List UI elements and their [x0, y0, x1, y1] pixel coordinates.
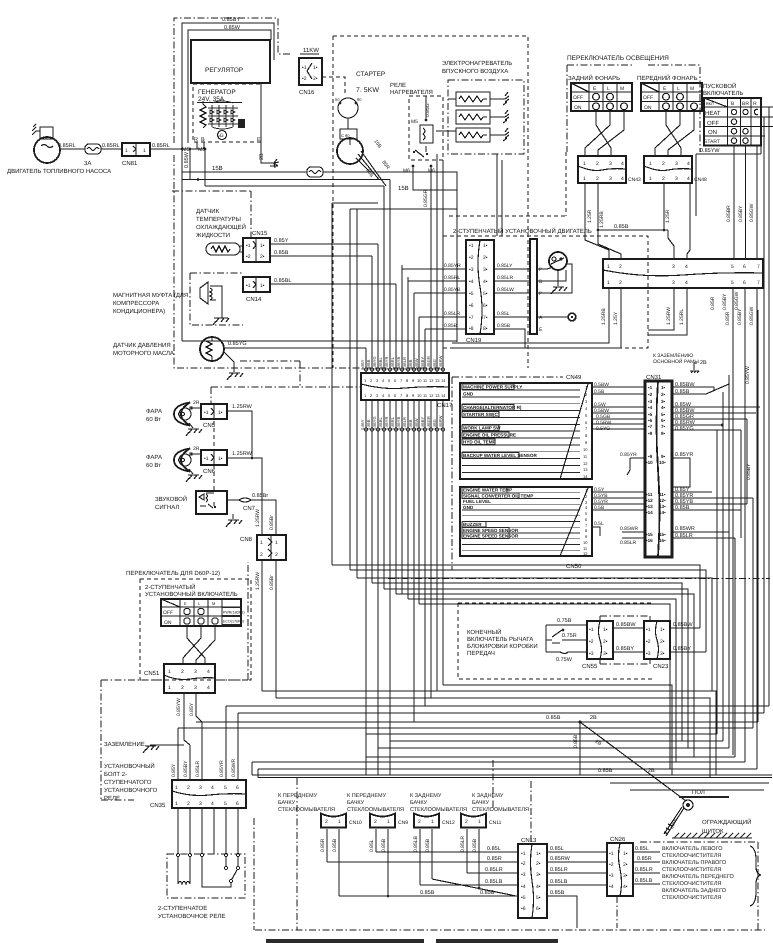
wiper switch text block [662, 846, 735, 901]
svg-text:BACKUP WATER LEVEL SENSOR: BACKUP WATER LEVEL SENSOR [463, 453, 537, 458]
rear light X wires [585, 111, 624, 156]
bus left corner verticals [252, 762, 258, 778]
svg-text:2: 2 [275, 552, 278, 558]
wire 0.85YG oil sensor [224, 347, 366, 349]
svg-text:УСТАНОВОЧНЫЙ: УСТАНОВОЧНЫЙ [104, 762, 155, 770]
bus long wire 2 [258, 777, 772, 779]
svg-text:ПЕРЕДНИЙ ФОНАРЬ: ПЕРЕДНИЙ ФОНАРЬ [637, 74, 698, 82]
svg-text:0.85LR: 0.85LR [675, 533, 693, 539]
svg-text:90: 90 [357, 97, 362, 102]
bus wire B1 [262, 691, 716, 775]
svg-text:R: R [753, 101, 757, 107]
wire 1.25RW CN5 [227, 411, 252, 458]
svg-text:2•: 2• [661, 392, 666, 397]
svg-text:0.5B: 0.5B [594, 505, 605, 511]
bus right short C8 C9 [610, 783, 769, 790]
svg-text:•1: •1 [204, 410, 209, 416]
svg-text:11•: 11• [659, 492, 666, 497]
svg-text:0.85YG: 0.85YG [675, 426, 694, 432]
svg-text:МАГНИТНАЯ МУФТА (ДЛЯ: МАГНИТНАЯ МУФТА (ДЛЯ [113, 292, 188, 299]
svg-text:0.85L: 0.85L [635, 846, 649, 852]
svg-text:0.85Y: 0.85Y [274, 238, 289, 244]
svg-text:CN35: CN35 [150, 802, 166, 809]
dash-dot boundary cab [452, 377, 563, 570]
svg-text:8•: 8• [661, 431, 666, 436]
svg-text:0.85L: 0.85L [497, 311, 510, 317]
svg-text:2-СТУПЕНЧАТОЕ: 2-СТУПЕНЧАТОЕ [158, 905, 207, 912]
CN17 upper pin labels [360, 355, 443, 370]
svg-text:0.85B: 0.85B [420, 890, 435, 896]
svg-text:0.85GR: 0.85GR [426, 416, 431, 430]
svg-text:ПУСКОВОЙ: ПУСКОВОЙ [703, 82, 736, 90]
svg-text:•7: •7 [648, 424, 653, 429]
svg-text:0.85W: 0.85W [184, 151, 190, 168]
svg-text:ТЕМПЕРАТУРЫ: ТЕМПЕРАТУРЫ [196, 216, 241, 223]
svg-text:1.25R: 1.25R [665, 209, 671, 223]
svg-text:0.75W: 0.75W [556, 657, 573, 663]
svg-text:ВКЛЮЧАТЕЛЬ ПЕРЕДНЕГО: ВКЛЮЧАТЕЛЬ ПЕРЕДНЕГО [662, 874, 735, 880]
terminal A circle [537, 316, 568, 318]
svg-text:ЗАДНИЙ ФОНАРЬ: ЗАДНИЙ ФОНАРЬ [568, 74, 620, 82]
svg-text:•6: •6 [521, 906, 526, 912]
svg-text:1: 1 [583, 176, 586, 182]
svg-text:1: 1 [431, 819, 434, 825]
svg-text:CN6: CN6 [203, 468, 216, 475]
svg-text:3•: 3• [603, 651, 608, 657]
svg-text:1•: 1• [623, 851, 628, 857]
svg-text:1: 1 [338, 819, 341, 825]
svg-text:0.85RL: 0.85RL [390, 356, 395, 370]
svg-text:БАЧКУ: БАЧКУ [278, 800, 296, 806]
svg-text:1•: 1• [603, 627, 608, 633]
svg-text:ЗАЗЕМЛЕНИЕ: ЗАЗЕМЛЕНИЕ [104, 741, 145, 748]
svg-text:0.85R: 0.85R [725, 311, 731, 325]
svg-text:ENGINE WATER TEMP: ENGINE WATER TEMP [463, 488, 512, 493]
svg-text:1: 1 [175, 785, 178, 791]
wire 1.25RW CN6 [227, 458, 262, 535]
svg-text:3: 3 [672, 280, 675, 286]
svg-text:5: 5 [224, 801, 227, 807]
svg-text:13•: 13• [659, 504, 666, 509]
svg-text:0.5BW: 0.5BW [594, 382, 609, 388]
svg-text:2: 2 [662, 161, 665, 167]
svg-text:1•: 1• [218, 456, 223, 462]
svg-text:2: 2 [619, 264, 622, 270]
relay contact [415, 146, 426, 157]
wires below CN8 [262, 560, 276, 698]
wires below long connector [452, 288, 757, 385]
wires washers to CN13 [376, 851, 518, 853]
bus wire B4 [238, 712, 764, 714]
svg-text:0.85B: 0.85B [366, 359, 371, 370]
wire relay 15B down [413, 166, 457, 190]
svg-text:2: 2 [596, 161, 599, 167]
svg-text:M: M [212, 601, 215, 606]
generator winding resistor [200, 101, 206, 128]
svg-text:FUEL LEVEL: FUEL LEVEL [463, 499, 491, 504]
svg-text:OFF: OFF [643, 95, 653, 101]
headlamp E1 [174, 403, 201, 426]
CN31 right wires pins11-14 [672, 492, 753, 510]
svg-text:60 Вт: 60 Вт [146, 462, 161, 469]
bus wire A8 [419, 604, 670, 769]
right vertical bundle [717, 288, 757, 769]
svg-text:9•: 9• [661, 454, 666, 459]
svg-text:•1: •1 [648, 385, 653, 390]
svg-text:BR: BR [742, 101, 749, 107]
svg-text:•2: •2 [246, 254, 251, 260]
brace [750, 846, 761, 906]
wire fuse to CN81 [101, 148, 122, 150]
svg-text:0.85R: 0.85R [637, 856, 652, 862]
svg-text:0.75B: 0.75B [557, 618, 572, 624]
svg-text:0.85RL: 0.85RL [152, 143, 170, 149]
svg-text:К ПЕРЕДНЕМУ: К ПЕРЕДНЕМУ [278, 793, 318, 799]
svg-text:2: 2 [325, 819, 328, 825]
svg-text:50: 50 [335, 97, 340, 102]
start switch table [704, 98, 773, 146]
svg-text:4: 4 [621, 176, 624, 182]
svg-text:ПЕРЕКЛЮЧАТЕЛЬ ОСВЕЩЕНИЯ: ПЕРЕКЛЮЧАТЕЛЬ ОСВЕЩЕНИЯ [567, 55, 669, 62]
svg-text:14: 14 [583, 474, 588, 479]
bus wire C5 [252, 761, 745, 763]
svg-text:1•: 1• [536, 851, 541, 857]
svg-text:CN51: CN51 [144, 670, 160, 677]
svg-text:ВКЛЮЧАТЕЛЬ РЫЧАГА: ВКЛЮЧАТЕЛЬ РЫЧАГА [467, 636, 533, 643]
svg-text:•13: •13 [646, 504, 653, 509]
svg-text:0.85B: 0.85B [573, 734, 579, 748]
svg-text:0.85BY: 0.85BY [722, 293, 728, 310]
svg-text:14: 14 [441, 393, 446, 398]
svg-text:0.75R: 0.75R [562, 633, 577, 639]
svg-text:2B: 2B [259, 153, 265, 160]
svg-text:0.85W: 0.85W [414, 358, 419, 370]
svg-text:БОЛТ 2-: БОЛТ 2- [104, 771, 127, 778]
svg-text:0.85BL: 0.85BL [378, 417, 383, 430]
svg-text:0.85LR: 0.85LR [550, 867, 568, 873]
fuse F2 on 15B [307, 167, 323, 177]
CN19 right wires [494, 269, 530, 348]
svg-text:2•: 2• [260, 254, 265, 260]
svg-text:4: 4 [687, 161, 690, 167]
svg-text:0.85YG: 0.85YG [372, 356, 377, 370]
floor line [679, 796, 729, 798]
svg-text:0.85L: 0.85L [550, 846, 564, 852]
bus wire A6 [396, 594, 694, 757]
svg-text:1.25RL: 1.25RL [679, 309, 685, 325]
svg-text:0.85BY: 0.85BY [222, 17, 240, 23]
svg-text:0.85YB: 0.85YB [396, 417, 401, 430]
svg-text:3•: 3• [483, 267, 488, 273]
svg-text:СТАРТЕР: СТАРТЕР [356, 71, 385, 78]
svg-text:2: 2 [374, 819, 377, 825]
dash-dot boundary low left [101, 562, 248, 800]
svg-text:2•: 2• [603, 639, 608, 645]
svg-text:0.85LR: 0.85LR [402, 417, 407, 430]
svg-text:0.85L: 0.85L [369, 839, 375, 852]
svg-text:1: 1 [387, 819, 390, 825]
svg-text:2•: 2• [660, 639, 665, 645]
bus wire B6 [178, 727, 753, 729]
svg-text:0.85GW: 0.85GW [749, 306, 755, 325]
svg-text:УСТАНОВОЧНОЕ РЕЛЕ: УСТАНОВОЧНОЕ РЕЛЕ [158, 913, 225, 920]
svg-text:5: 5 [731, 264, 734, 270]
svg-text:0.85BY: 0.85BY [738, 205, 744, 222]
svg-text:3: 3 [194, 669, 197, 675]
svg-text:ФАРА: ФАРА [146, 454, 162, 461]
svg-text:1.25RW: 1.25RW [255, 509, 261, 527]
svg-text:0.85LB: 0.85LB [413, 835, 419, 852]
svg-text:HEAT: HEAT [705, 110, 721, 117]
svg-text:ОСНОВНОЙ РАМЫ: ОСНОВНОЙ РАМЫ [653, 358, 699, 365]
svg-text:СТЕКЛООЧИСТИТЕЛЯ: СТЕКЛООЧИСТИТЕЛЯ [662, 853, 721, 859]
svg-text:•4: •4 [469, 279, 474, 285]
svg-text:3: 3 [199, 801, 202, 807]
svg-text:3•: 3• [623, 873, 628, 879]
dashed boundary engine lower [449, 152, 566, 216]
wire 0.5L buzzer [592, 527, 600, 536]
svg-text:0.85B: 0.85B [675, 505, 690, 511]
svg-text:3А: 3А [84, 160, 91, 167]
svg-text:ENGINE SPEED SENSOR: ENGINE SPEED SENSOR [463, 534, 519, 539]
svg-text:0.85RL: 0.85RL [390, 416, 395, 430]
svg-text:РЕЛЕ: РЕЛЕ [390, 82, 406, 89]
boundary dash-dot sensors top [172, 191, 251, 238]
svg-text:SIGNAL CONVERTER OIL TEMP: SIGNAL CONVERTER OIL TEMP [463, 493, 533, 498]
svg-text:BUZZER: BUZZER [463, 522, 482, 527]
svg-text:0.85BL: 0.85BL [378, 357, 383, 370]
svg-text:0.85Y: 0.85Y [360, 419, 365, 430]
fuse F1 3A [84, 144, 101, 167]
svg-text:•5: •5 [469, 291, 474, 297]
svg-text:•10: •10 [646, 460, 653, 465]
CN17 upper stub wires [366, 154, 443, 373]
svg-text:•6: •6 [648, 418, 653, 423]
svg-text:КОНДИЦИОНЕРА): КОНДИЦИОНЕРА) [113, 308, 165, 315]
svg-text:0.85LR: 0.85LR [497, 275, 514, 281]
svg-text:ОХЛАЖДАЮЩЕЙ: ОХЛАЖДАЮЩЕЙ [196, 223, 246, 231]
svg-text:0.85LR: 0.85LR [485, 867, 503, 873]
lamp E1 ground [189, 423, 193, 428]
svg-text:1: 1 [260, 540, 263, 546]
svg-text:0.85B: 0.85B [472, 838, 478, 852]
connector CN23 [644, 621, 670, 670]
svg-text:0.85B: 0.85B [675, 389, 690, 395]
engine dashed boundary box [333, 36, 528, 368]
svg-text:•2: •2 [521, 861, 526, 867]
wire CN81 to boundary 0.85RL [150, 148, 205, 150]
clutch ground [213, 318, 229, 325]
svg-text:OFF: OFF [163, 610, 173, 616]
bus wire A7 [408, 599, 676, 762]
regulator U1 box [191, 40, 270, 83]
svg-text:4•: 4• [536, 884, 541, 890]
svg-text:CN17: CN17 [437, 402, 453, 409]
connector CN8 [240, 535, 286, 560]
svg-text:0.85B: 0.85B [332, 838, 338, 852]
dash-dot boundary sensors [211, 361, 360, 403]
svg-text:0.85B: 0.85B [546, 715, 561, 721]
svg-text:CN49: CN49 [566, 374, 582, 381]
svg-text:12: 12 [583, 461, 588, 466]
svg-text:1.25RW: 1.25RW [255, 572, 261, 590]
connector CN10 [320, 814, 362, 897]
wire CN51 to ground [150, 744, 184, 746]
connector CN19 [466, 240, 494, 344]
svg-text:PWR(180PS): PWR(180PS) [223, 611, 245, 615]
bus wire A3 [357, 578, 712, 691]
svg-text:0.85YW: 0.85YW [176, 698, 182, 716]
bus wire A2 [350, 570, 706, 652]
svg-text:•3: •3 [648, 399, 653, 404]
connector CN6 [193, 446, 227, 475]
svg-text:•1: •1 [469, 243, 474, 249]
svg-text:0.85BY: 0.85BY [746, 463, 752, 480]
svg-text:0.85B: 0.85B [408, 419, 413, 430]
svg-text:0.85BY: 0.85BY [420, 417, 425, 430]
svg-text:ECO(170PS): ECO(170PS) [223, 620, 244, 624]
horn H1 [196, 491, 227, 514]
connector CN15 [243, 230, 270, 262]
svg-text:МОТОРНОГО МАСЛА: МОТОРНОГО МАСЛА [113, 350, 174, 357]
svg-text:•2: •2 [589, 639, 594, 645]
dashed box CN55 section [458, 603, 652, 679]
dashed wire CN16 to starter [322, 77, 345, 95]
svg-text:ДАТЧИК ДАВЛЕНИЯ: ДАТЧИК ДАВЛЕНИЯ [113, 342, 171, 349]
svg-text:STARTER SW(C): STARTER SW(C) [463, 412, 500, 417]
svg-text:12: 12 [429, 378, 434, 383]
2-step switch table [161, 599, 245, 626]
heater resistor 1 [456, 92, 509, 106]
svg-text:ГЕНЕРАТОР: ГЕНЕРАТОР [198, 89, 236, 96]
svg-text:1•: 1• [260, 243, 265, 249]
wire 0.85BY top [182, 23, 274, 341]
svg-text:2: 2 [418, 819, 421, 825]
wire generator B down to 15B bus [204, 149, 206, 186]
light switch dashed boundary [567, 65, 700, 152]
svg-text:0.85YR: 0.85YR [384, 417, 389, 430]
wire link 0.85B CN43-CN48 [598, 229, 668, 231]
svg-text:4: 4 [211, 801, 214, 807]
svg-text:0.85WR: 0.85WR [675, 526, 695, 532]
svg-text:0.85GR: 0.85GR [426, 356, 431, 370]
svg-text:1: 1 [275, 540, 278, 546]
svg-text:OFF: OFF [707, 120, 719, 127]
svg-text:0.85B: 0.85B [614, 224, 629, 230]
svg-text:3: 3 [675, 161, 678, 167]
bus wire A4 [372, 583, 682, 741]
svg-text:0.85B: 0.85B [366, 419, 371, 430]
air heater dash-dot box [448, 80, 524, 154]
svg-text:2•: 2• [313, 76, 318, 82]
svg-text:2: 2 [181, 685, 184, 691]
front light switch table [641, 83, 702, 111]
svg-text:НАГРЕВАТЕЛЯ: НАГРЕВАТЕЛЯ [390, 89, 433, 96]
svg-text:0.85R: 0.85R [710, 296, 716, 310]
svg-text:УСТАНОВОЧНОГО: УСТАНОВОЧНОГО [104, 787, 158, 794]
svg-text:0.85LB: 0.85LB [485, 879, 503, 885]
connector CN81 [122, 143, 150, 167]
svg-text:1•: 1• [661, 385, 666, 390]
svg-text:1.25RB: 1.25RB [599, 211, 605, 228]
svg-text:1.25Y: 1.25Y [613, 311, 619, 325]
magnetic clutch Y1 [200, 282, 222, 318]
connector CN50 table [460, 487, 592, 556]
svg-text:2R: 2R [193, 400, 200, 406]
generator diode bridge [208, 101, 238, 129]
svg-text:13: 13 [435, 393, 440, 398]
svg-text:0.85WR: 0.85WR [231, 759, 237, 777]
dashed link CN5-CN6 [213, 421, 215, 491]
svg-text:•1: •1 [302, 65, 307, 71]
2-step relay K2 dash-dot box [167, 854, 245, 898]
svg-text:4: 4 [685, 280, 688, 286]
horn ground [232, 514, 234, 519]
svg-text:0.85B: 0.85B [444, 323, 458, 329]
pulley [683, 800, 693, 810]
svg-text:1: 1 [607, 264, 610, 270]
svg-text:•1: •1 [246, 243, 251, 249]
svg-text:0.85YR: 0.85YR [620, 452, 637, 458]
svg-text:1.25RW: 1.25RW [232, 451, 253, 457]
svg-text:CN11: CN11 [489, 820, 502, 826]
svg-text:4: 4 [207, 669, 210, 675]
svg-text:ВКЛЮЧАТЕЛЬ: ВКЛЮЧАТЕЛЬ [703, 90, 743, 97]
boundary dash-dot engine left lower [174, 155, 440, 368]
svg-text:•9: •9 [648, 454, 653, 459]
svg-text:0.85Br: 0.85Br [252, 493, 268, 499]
svg-text:0.85B: 0.85B [550, 890, 565, 896]
svg-text:•2: •2 [469, 255, 474, 261]
svg-text:7•: 7• [483, 315, 488, 321]
svg-text:0.85RW: 0.85RW [438, 355, 443, 370]
svg-text:0.85RL: 0.85RL [444, 275, 460, 281]
far right verticals [696, 107, 769, 722]
svg-text:УСТАНОВОЧНЫЙ ВКЛЮЧАТЕЛЬ: УСТАНОВОЧНЫЙ ВКЛЮЧАТЕЛЬ [145, 590, 238, 598]
oil sensor ground [224, 352, 234, 372]
generator G circle [218, 131, 227, 140]
wires below CN51 [184, 693, 202, 745]
svg-text:2R: 2R [193, 446, 200, 452]
svg-text:•2: •2 [648, 392, 653, 397]
svg-text:1•: 1• [660, 627, 665, 633]
svg-text:6•: 6• [661, 418, 666, 423]
svg-text:E: E [257, 137, 261, 143]
svg-text:0.85LR: 0.85LR [460, 835, 466, 852]
svg-text:0.85B: 0.85B [497, 323, 511, 329]
svg-text:•1: •1 [204, 456, 209, 462]
dash-dot box CN55-CN23 [600, 616, 650, 664]
dash-dot boundaries bottom [255, 929, 765, 931]
svg-text:БАЧКУ: БАЧКУ [347, 800, 365, 806]
svg-text:СТЕКЛООМЫВАТЕЛЯ: СТЕКЛООМЫВАТЕЛЯ [472, 807, 529, 813]
svg-text:1: 1 [478, 819, 481, 825]
svg-text:•1: •1 [521, 851, 526, 857]
svg-text:2B: 2B [700, 360, 707, 366]
motor feeder stubs [497, 154, 502, 236]
relay K2 internals [176, 853, 239, 887]
svg-text:•8: •8 [469, 326, 474, 332]
svg-text:1.25R: 1.25R [587, 209, 593, 223]
svg-text:2B: 2B [590, 715, 597, 721]
boundary dash-dot cab floor [388, 578, 770, 580]
connector CN12 [413, 814, 455, 886]
svg-text:7: 7 [757, 280, 760, 286]
svg-text:ВПУСКНОГО ВОЗДУХА: ВПУСКНОГО ВОЗДУХА [442, 68, 508, 75]
wire bus second [182, 179, 390, 181]
wires above CN35 [178, 706, 238, 780]
svg-text:ЩИТОК: ЩИТОК [702, 828, 724, 835]
